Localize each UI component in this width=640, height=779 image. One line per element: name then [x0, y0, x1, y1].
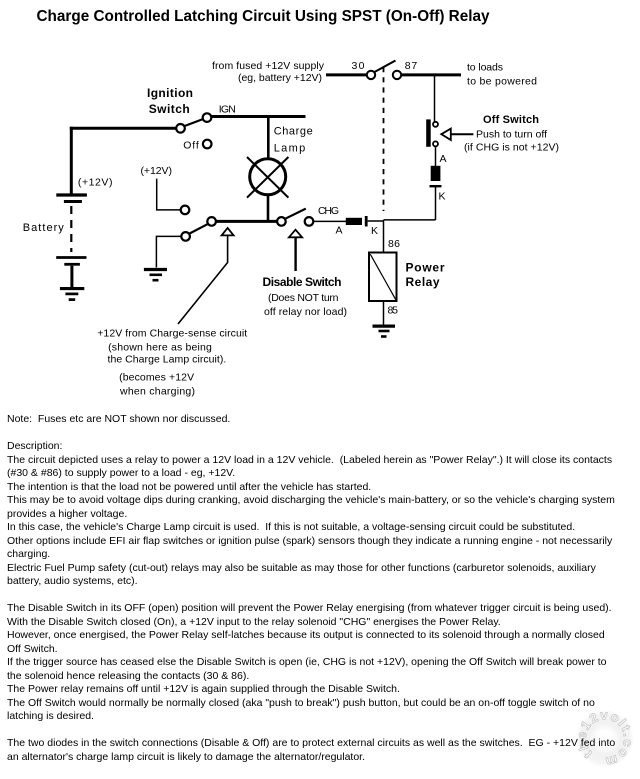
ground charge-sense mid bar: [150, 273, 163, 276]
wire off switch branch to coil junction: [384, 219, 436, 221]
wire IGN to charge lamp feed: [212, 115, 306, 118]
SPDT bottom throw contact (ground): [181, 232, 190, 241]
svg-text:(+12V): (+12V): [78, 177, 113, 189]
svg-text:Push to turn off: Push to turn off: [476, 129, 547, 141]
svg-text:IGN: IGN: [219, 104, 236, 116]
charge lamp bulb circle: [250, 159, 286, 195]
svg-text:30: 30: [352, 60, 365, 72]
ground relay long bar: [373, 325, 396, 328]
wire down to off switch: [434, 76, 436, 122]
svg-text:A: A: [440, 153, 447, 165]
ignition switch IGN contact: [203, 113, 212, 122]
disable switch blade (open): [285, 209, 306, 219]
ground relay mid bar: [379, 330, 390, 333]
wire SPDT bottom throw to ground: [156, 236, 181, 267]
svg-text:Charge: Charge: [274, 126, 313, 138]
wire relay 85 to ground: [383, 302, 385, 325]
wire down to charge lamp: [267, 118, 270, 159]
svg-text:Lamp: Lamp: [274, 143, 306, 155]
svg-text:Relay: Relay: [406, 275, 440, 289]
off switch diode body: [431, 166, 441, 181]
svg-text:+12V from Charge-sense circuit: +12V from Charge-sense circuit: [97, 328, 247, 340]
charge lamp X stroke 2: [247, 157, 288, 198]
wire charge lamp down to sense wire: [267, 195, 270, 222]
ignition switch common contact: [176, 124, 185, 133]
off switch diode cathode bar: [430, 185, 442, 187]
disable switch right contact: [305, 217, 314, 226]
SPDT top throw contact (+12V): [181, 206, 190, 215]
wire CHG diode to junction: [368, 220, 384, 222]
svg-text:off relay nor load): off relay nor load): [264, 306, 347, 318]
description text: [7, 413, 615, 764]
watermark the12volt.com: [565, 699, 640, 779]
off switch pointer shaft: [451, 133, 474, 135]
disable switch left contact: [277, 217, 286, 226]
svg-text:Off Switch: Off Switch: [483, 114, 539, 126]
svg-text:Off: Off: [183, 140, 199, 152]
relay coil diagonal: [370, 254, 395, 299]
svg-text:(becomes +12V: (becomes +12V: [119, 371, 194, 383]
relay contact terminal 87: [393, 71, 401, 79]
off switch pointer arrowhead: [441, 129, 451, 140]
relay contact blade (open, between 30 and 87): [375, 61, 396, 73]
wire diode K down: [435, 187, 437, 220]
battery dashed middle: [70, 206, 72, 252]
ground charge-sense small bar: [153, 279, 159, 282]
relay coil box: [369, 253, 397, 302]
svg-text:to be powered: to be powered: [467, 76, 537, 88]
charge lamp X stroke 1: [247, 157, 288, 198]
ground battery small bar: [69, 298, 76, 301]
charge-sense pointer arrowhead left: [222, 228, 234, 236]
ignition switch Off contact: [203, 140, 212, 149]
svg-text:86: 86: [388, 238, 400, 250]
svg-text:(eg, battery +12V): (eg, battery +12V): [238, 72, 322, 84]
svg-text:when charging): when charging): [119, 386, 195, 398]
battery top short plate: [64, 200, 82, 203]
ground relay small bar: [381, 335, 387, 338]
svg-text:Switch: Switch: [149, 102, 190, 116]
ignition switch blade to IGN: [185, 119, 204, 126]
ground battery long bar: [60, 287, 84, 290]
SPDT common contact: [207, 217, 216, 226]
ground battery mid bar: [65, 293, 78, 296]
svg-text:K: K: [371, 225, 378, 237]
svg-text:Power: Power: [406, 260, 445, 274]
svg-text:87: 87: [405, 60, 418, 72]
off switch push button bar: [426, 119, 431, 146]
svg-text:(+12V): (+12V): [141, 165, 173, 177]
svg-text:the Charge Lamp circuit).: the Charge Lamp circuit).: [108, 354, 227, 366]
relay contact terminal 30: [367, 71, 375, 79]
charge-sense pointer stem left: [178, 235, 228, 324]
main charge-sense wire: [216, 220, 277, 223]
wire junction down to relay coil 86: [383, 220, 385, 252]
battery bottom short plate: [64, 263, 80, 266]
wire battery to ground: [70, 266, 73, 288]
dashed relay actuator link: [383, 67, 385, 211]
svg-text:from fused +12V supply: from fused +12V supply: [212, 60, 325, 72]
svg-text:(Does NOT turn: (Does NOT turn: [268, 292, 339, 304]
svg-text:Ignition: Ignition: [147, 86, 193, 100]
wire battery to ignition switch: [70, 127, 177, 130]
wire CHG to diode: [313, 220, 346, 222]
svg-text:CHG: CHG: [318, 205, 339, 217]
battery bottom long plate: [56, 256, 86, 259]
CHG diode cathode bar: [365, 216, 368, 227]
svg-text:A: A: [336, 225, 343, 237]
wire +12V label down to SPDT top throw: [157, 179, 181, 210]
disable pointer stem: [294, 237, 296, 271]
wire off switch to diode: [435, 146, 437, 167]
off switch top contact: [433, 122, 438, 127]
disable pointer arrowhead: [289, 230, 302, 238]
battery top long plate: [56, 193, 87, 196]
svg-text:to loads: to loads: [467, 62, 503, 74]
svg-text:Disable Switch: Disable Switch: [263, 275, 342, 289]
svg-text:K: K: [439, 191, 446, 203]
svg-text:85: 85: [388, 305, 399, 317]
wire 87 to loads: [402, 73, 462, 76]
off switch bottom contact: [433, 141, 438, 146]
svg-text:(if CHG is not +12V): (if CHG is not +12V): [464, 142, 559, 154]
wire from fused supply to relay contact 30: [326, 73, 367, 76]
svg-text:(shown here as being: (shown here as being: [108, 342, 212, 354]
CHG diode body: [346, 218, 362, 225]
ground charge-sense long bar: [144, 268, 167, 271]
svg-text:Battery: Battery: [23, 222, 65, 234]
title: [37, 9, 490, 24]
wire down to battery: [70, 127, 73, 194]
SPDT blade: [189, 224, 208, 234]
